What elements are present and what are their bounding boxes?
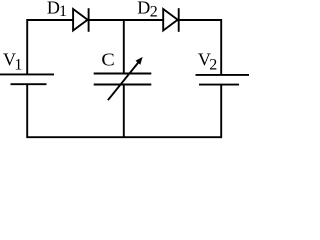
svg-text:1: 1 [14,57,22,74]
svg-text:C: C [101,50,114,70]
svg-text:D: D [47,0,60,18]
svg-text:1: 1 [59,3,67,20]
svg-text:2: 2 [150,3,158,20]
svg-text:2: 2 [209,57,217,74]
svg-text:D: D [137,0,150,18]
